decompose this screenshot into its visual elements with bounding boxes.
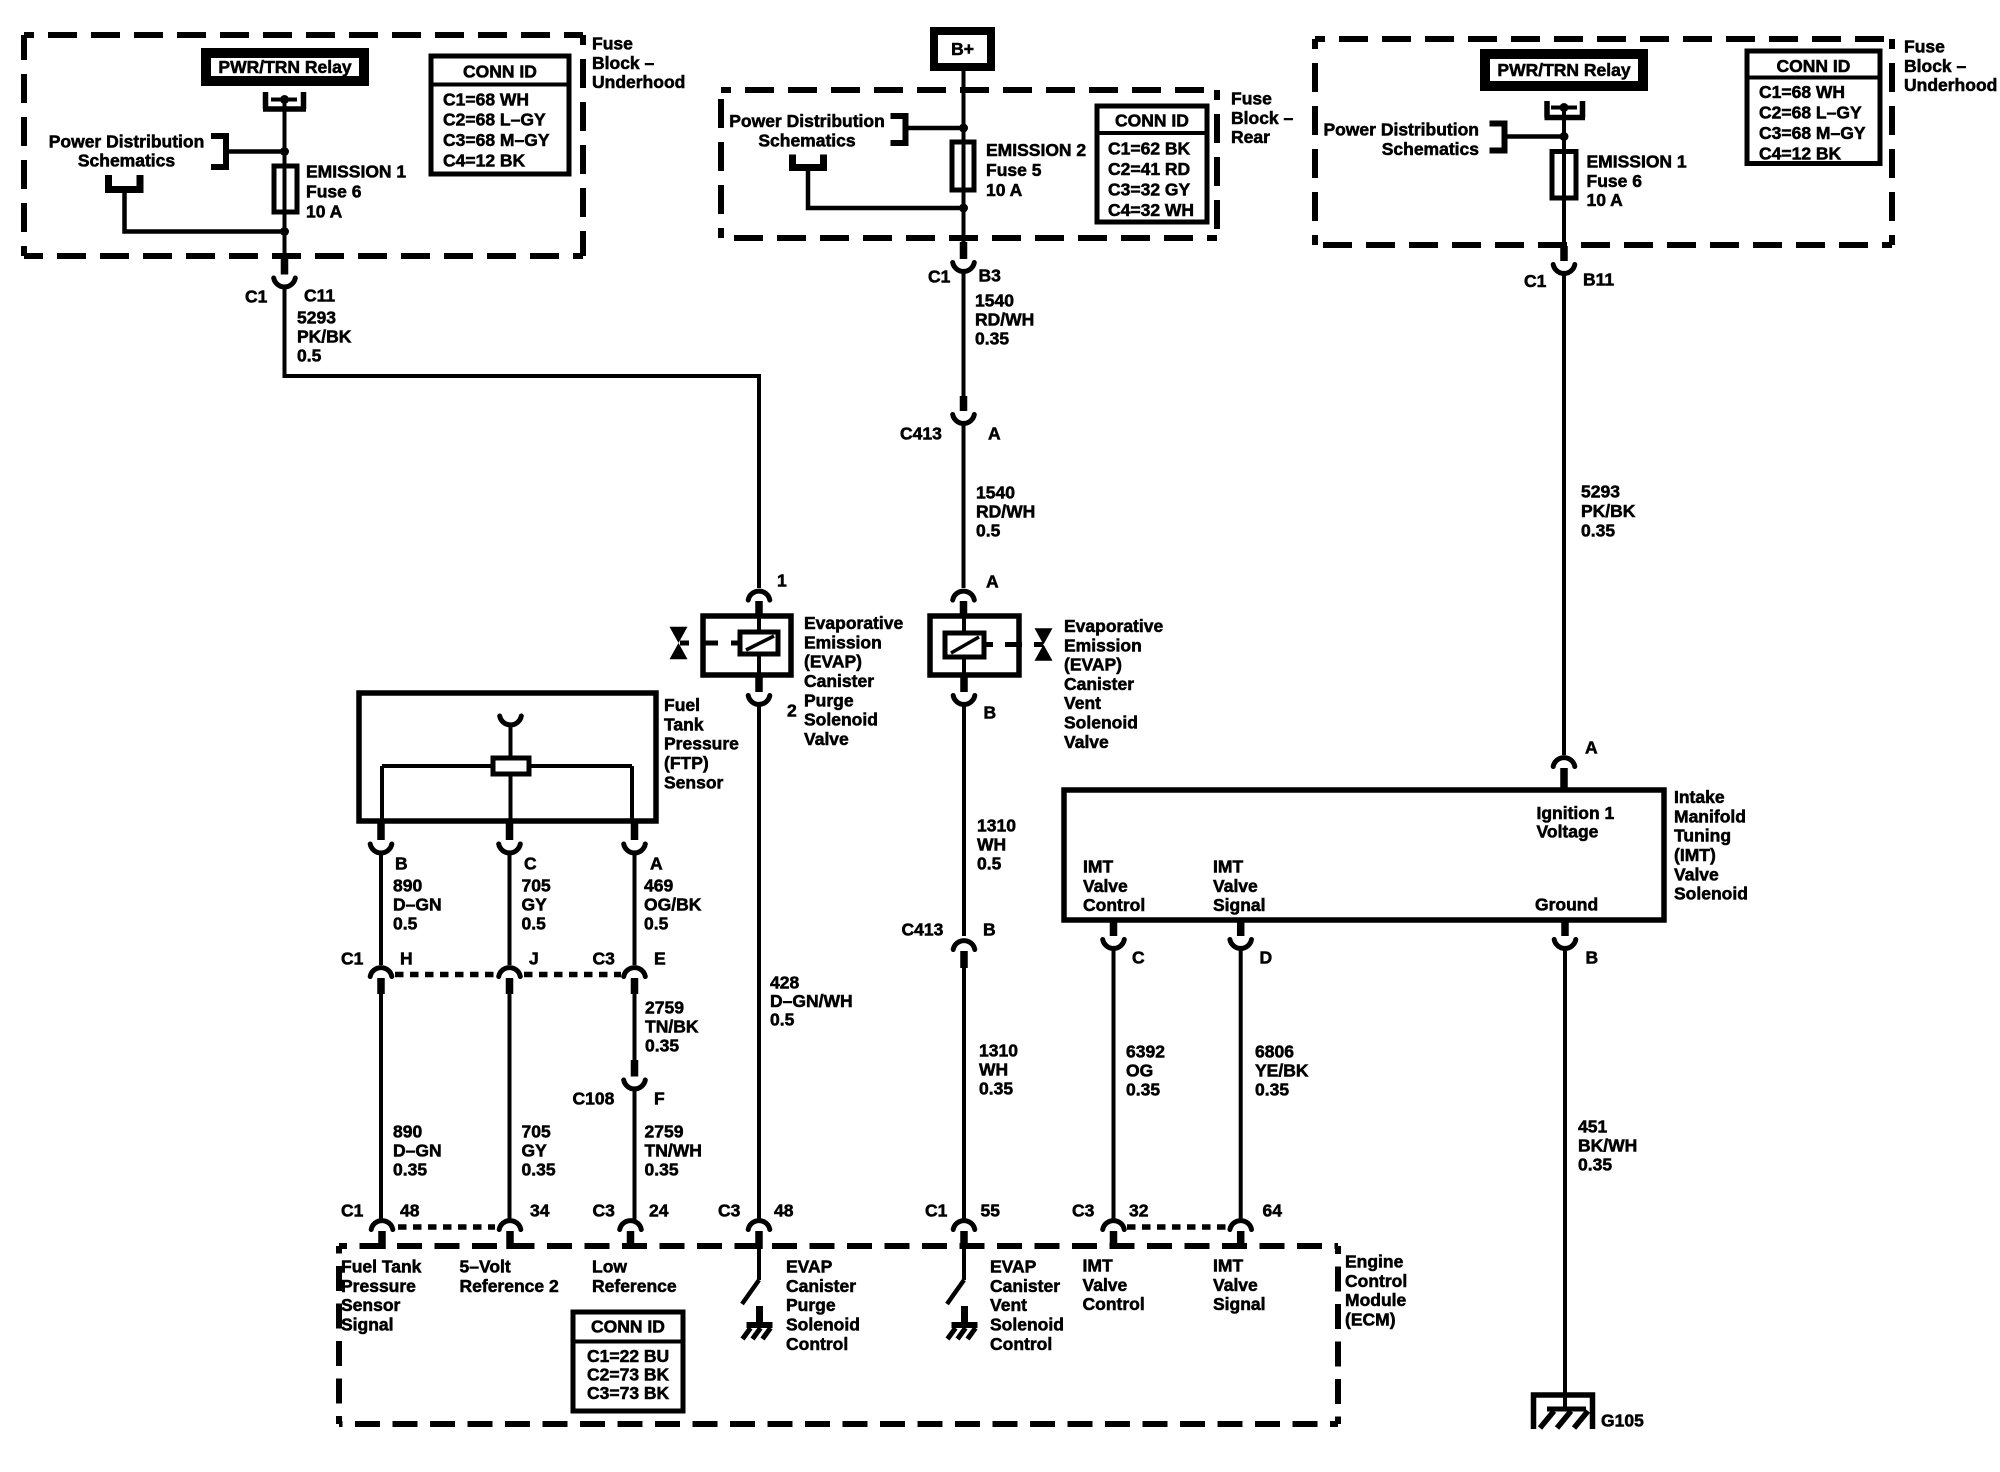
svg-text:GY: GY — [522, 1141, 548, 1161]
svg-text:Evaporative: Evaporative — [804, 613, 903, 633]
svg-text:Control: Control — [1345, 1271, 1407, 1291]
svg-text:10 A: 10 A — [1587, 190, 1624, 210]
CONN ID table (ECM) — [573, 1312, 683, 1411]
wire 1310 WH 0.35 — [962, 967, 966, 1220]
svg-text:10 A: 10 A — [986, 180, 1023, 200]
svg-text:705: 705 — [522, 1122, 551, 1142]
FTP sensor internal wiper — [500, 716, 522, 725]
svg-text:0.5: 0.5 — [522, 914, 547, 934]
svg-text:C108: C108 — [573, 1089, 615, 1109]
svg-text:Evaporative: Evaporative — [1064, 616, 1163, 636]
svg-text:Schematics: Schematics — [1382, 139, 1480, 159]
svg-text:Control: Control — [1083, 895, 1145, 915]
svg-text:428: 428 — [770, 973, 799, 993]
svg-text:Pressure: Pressure — [664, 734, 739, 754]
valve symbol bowtie (purge) — [670, 627, 688, 659]
relay PWR/TRN (left) — [201, 48, 369, 86]
wire 705 GY 0.5 — [508, 854, 512, 965]
svg-text:Module: Module — [1345, 1290, 1407, 1310]
svg-text:Fuse: Fuse — [1904, 37, 1945, 57]
wire 6392 OG 0.35 — [1112, 950, 1116, 1221]
svg-text:C3=73 BK: C3=73 BK — [587, 1383, 670, 1403]
wire 5293 PK/BK 0.5 — [285, 288, 760, 588]
svg-text:CONN ID: CONN ID — [591, 1317, 665, 1337]
relay coil pin symbol (right) — [1545, 101, 1586, 118]
wire 890 D-GN 0.5 — [379, 854, 383, 965]
svg-text:Schematics: Schematics — [78, 151, 176, 171]
svg-text:Canister: Canister — [990, 1276, 1060, 1296]
svg-text:Emission: Emission — [1064, 635, 1142, 655]
wire - left fuse block vertical feed — [283, 100, 287, 258]
intake manifold tuning IMT valve solenoid box — [1064, 790, 1664, 920]
FTP sensor internal network — [382, 764, 632, 768]
svg-text:Valve: Valve — [804, 729, 849, 749]
svg-text:C413: C413 — [902, 920, 944, 940]
wire 1540 RD/WH 0.5 — [962, 425, 966, 589]
dashed connector grouping H-J-E — [395, 972, 496, 978]
svg-text:Manifold: Manifold — [1674, 806, 1746, 826]
svg-text:Solenoid: Solenoid — [1674, 884, 1748, 904]
svg-text:RD/WH: RD/WH — [976, 502, 1035, 522]
FTP pin A — [631, 824, 639, 841]
svg-text:Tuning: Tuning — [1674, 826, 1731, 846]
svg-text:Ignition 1: Ignition 1 — [1537, 803, 1615, 823]
svg-text:Power Distribution: Power Distribution — [49, 132, 205, 152]
svg-text:A: A — [986, 572, 999, 592]
svg-text:E: E — [654, 949, 666, 969]
svg-text:Sensor: Sensor — [341, 1295, 401, 1315]
svg-text:Fuse 6: Fuse 6 — [1587, 171, 1643, 191]
svg-text:EMISSION 2: EMISSION 2 — [986, 140, 1086, 160]
svg-text:Underhood: Underhood — [592, 72, 685, 92]
svg-text:Block –: Block – — [1904, 56, 1967, 76]
svg-text:IMT: IMT — [1213, 1256, 1243, 1276]
wire - right fuse block vertical feed — [1562, 108, 1566, 248]
svg-text:B: B — [984, 703, 997, 723]
svg-text:C1: C1 — [1524, 271, 1547, 291]
wire bracket to junction (middle) — [906, 126, 964, 131]
svg-text:10 A: 10 A — [306, 202, 343, 222]
fuse EMISSION 1 Fuse 6 10A (left) — [274, 166, 297, 212]
connector C1 B11 — [1560, 246, 1568, 261]
svg-text:6806: 6806 — [1255, 1042, 1294, 1062]
svg-text:A: A — [1585, 738, 1598, 758]
svg-text:Solenoid: Solenoid — [786, 1315, 860, 1335]
ECM vent driver switch and ground — [962, 1249, 966, 1280]
reference bracket U (middle) — [793, 155, 824, 168]
svg-text:0.35: 0.35 — [522, 1160, 556, 1180]
svg-text:TN/BK: TN/BK — [645, 1017, 699, 1037]
bracket to Power Distribution Schematics (left) — [211, 133, 226, 170]
fuse EMISSION 1 Fuse 6 10A (right) — [1552, 152, 1576, 199]
svg-text:0.35: 0.35 — [1581, 521, 1615, 541]
CONN ID table (right) — [1747, 51, 1880, 164]
svg-text:0.35: 0.35 — [1255, 1080, 1289, 1100]
wire 428 D-GN/WH 0.5 — [757, 705, 761, 1220]
svg-text:48: 48 — [774, 1201, 794, 1221]
svg-text:5–Volt: 5–Volt — [460, 1257, 511, 1277]
wire 1540 RD/WH 0.35 — [962, 273, 966, 399]
svg-text:B+: B+ — [951, 39, 974, 59]
svg-text:(IMT): (IMT) — [1674, 845, 1716, 865]
svg-text:Fuse 5: Fuse 5 — [986, 160, 1042, 180]
svg-text:Solenoid: Solenoid — [1064, 713, 1138, 733]
fuse block underhood (right) dashed box — [1315, 36, 1892, 42]
svg-text:C3: C3 — [1072, 1201, 1095, 1221]
svg-text:C1=62 BK: C1=62 BK — [1108, 139, 1191, 159]
wire from U bracket to junction 2 (left) — [125, 190, 286, 232]
wire 2759 TN/BK 0.35 — [633, 992, 637, 1060]
svg-text:IMT: IMT — [1213, 857, 1243, 877]
svg-text:Control: Control — [990, 1334, 1052, 1354]
svg-text:Valve: Valve — [1064, 732, 1109, 752]
svg-text:2: 2 — [787, 701, 797, 721]
svg-text:890: 890 — [393, 876, 422, 896]
svg-text:C2=73 BK: C2=73 BK — [587, 1365, 670, 1385]
svg-text:C4=12 BK: C4=12 BK — [1759, 144, 1842, 164]
svg-text:D–GN: D–GN — [393, 895, 442, 915]
svg-text:Fuel Tank: Fuel Tank — [341, 1257, 422, 1277]
svg-text:EMISSION 1: EMISSION 1 — [1587, 152, 1687, 172]
svg-text:CONN ID: CONN ID — [1115, 111, 1189, 131]
svg-text:WH: WH — [977, 835, 1006, 855]
dashed connector grouping 32-64 — [1127, 1224, 1226, 1230]
svg-text:Block –: Block – — [1231, 108, 1294, 128]
svg-text:C1: C1 — [341, 1201, 364, 1221]
svg-text:EMISSION 1: EMISSION 1 — [306, 162, 406, 182]
svg-text:0.5: 0.5 — [393, 914, 418, 934]
wire 705 GY 0.35 — [508, 992, 512, 1220]
bracket to Power Distribution Schematics (middle) — [891, 113, 906, 146]
svg-text:2759: 2759 — [645, 998, 684, 1018]
svg-text:C1: C1 — [341, 949, 364, 969]
svg-text:OG/BK: OG/BK — [644, 895, 702, 915]
node junction (right) — [1560, 132, 1569, 141]
svg-text:C4=12 BK: C4=12 BK — [443, 151, 526, 171]
svg-text:Canister: Canister — [1064, 674, 1134, 694]
svg-text:EVAP: EVAP — [786, 1257, 833, 1277]
svg-text:(EVAP): (EVAP) — [804, 652, 862, 672]
svg-text:Ground: Ground — [1535, 895, 1598, 915]
svg-text:C413: C413 — [900, 424, 942, 444]
svg-text:C1: C1 — [245, 287, 268, 307]
svg-text:Signal: Signal — [341, 1315, 394, 1335]
svg-text:PWR/TRN Relay: PWR/TRN Relay — [1497, 60, 1630, 80]
svg-text:Emission: Emission — [804, 632, 882, 652]
svg-text:Valve: Valve — [1083, 1275, 1128, 1295]
svg-text:0.5: 0.5 — [297, 346, 322, 366]
svg-text:IMT: IMT — [1083, 1256, 1113, 1276]
IMT pin C — [1110, 920, 1118, 936]
svg-text:0.5: 0.5 — [644, 914, 669, 934]
IMT pin B ground — [1561, 920, 1569, 936]
svg-text:Fuse: Fuse — [1231, 89, 1272, 109]
svg-text:Vent: Vent — [1064, 693, 1101, 713]
svg-text:C4=32 WH: C4=32 WH — [1108, 200, 1194, 220]
wire 2759 TN/WH 0.35 — [633, 1090, 637, 1220]
svg-text:PK/BK: PK/BK — [297, 327, 352, 347]
svg-text:GY: GY — [522, 895, 548, 915]
svg-text:705: 705 — [522, 876, 551, 896]
svg-text:D–GN/WH: D–GN/WH — [770, 991, 853, 1011]
svg-text:CONN ID: CONN ID — [463, 62, 537, 82]
svg-text:Tank: Tank — [664, 714, 704, 734]
svg-text:C1=22 BU: C1=22 BU — [587, 1346, 669, 1366]
node junction 1 (middle) — [959, 124, 968, 133]
connector C1 C11 — [281, 255, 289, 275]
svg-text:34: 34 — [530, 1201, 550, 1221]
svg-text:Valve: Valve — [1213, 1275, 1258, 1295]
wire B+ to fuse block rear — [962, 71, 966, 243]
svg-text:Reference 2: Reference 2 — [460, 1276, 559, 1296]
svg-text:Power Distribution: Power Distribution — [1323, 120, 1479, 140]
svg-text:Control: Control — [1083, 1294, 1145, 1314]
fuse block rear dashed box — [721, 87, 1217, 93]
svg-text:Block –: Block – — [592, 53, 655, 73]
relay coil pin symbol (left) — [263, 92, 306, 109]
FTP pin B — [377, 824, 385, 841]
wire bracket to junction (right) — [1505, 134, 1565, 139]
svg-text:B: B — [395, 854, 408, 874]
svg-text:Schematics: Schematics — [758, 130, 856, 150]
svg-text:IMT: IMT — [1083, 857, 1113, 877]
connector C1 B3 — [960, 242, 968, 259]
svg-text:C2=68 L–GY: C2=68 L–GY — [1759, 103, 1862, 123]
svg-text:B11: B11 — [1583, 270, 1614, 290]
svg-text:PWR/TRN Relay: PWR/TRN Relay — [218, 57, 351, 77]
svg-text:PK/BK: PK/BK — [1581, 501, 1636, 521]
svg-text:469: 469 — [644, 876, 673, 896]
svg-text:D–GN: D–GN — [393, 1141, 442, 1161]
svg-text:0.35: 0.35 — [979, 1079, 1013, 1099]
svg-text:RD/WH: RD/WH — [975, 310, 1034, 330]
relay PWR/TRN (right) — [1480, 49, 1648, 91]
wire 451 BK/WH 0.35 — [1563, 950, 1567, 1411]
svg-text:Signal: Signal — [1213, 1294, 1266, 1314]
svg-text:890: 890 — [393, 1122, 422, 1142]
engine control module ECM dashed box — [339, 1243, 1338, 1249]
svg-text:Purge: Purge — [804, 690, 854, 710]
svg-text:B: B — [1586, 948, 1599, 968]
svg-text:Fuel: Fuel — [664, 695, 700, 715]
wire from U bracket to junction 2 (middle) — [808, 168, 964, 209]
svg-text:F: F — [654, 1089, 665, 1109]
svg-text:G105: G105 — [1601, 1411, 1644, 1431]
svg-text:32: 32 — [1129, 1201, 1149, 1221]
svg-text:TN/WH: TN/WH — [645, 1141, 702, 1161]
wire 1310 WH 0.5 — [962, 705, 966, 936]
fuel tank pressure sensor box B58 — [359, 693, 656, 821]
svg-text:451: 451 — [1578, 1117, 1607, 1137]
connector C108 pin F — [631, 1060, 639, 1077]
EVAP canister vent solenoid valve — [930, 616, 1019, 675]
svg-text:1540: 1540 — [976, 483, 1015, 503]
FTP sensor internal resistor — [493, 758, 529, 774]
svg-text:Purge: Purge — [786, 1295, 836, 1315]
svg-text:64: 64 — [1263, 1201, 1283, 1221]
valve symbol bowtie (vent) — [1035, 628, 1053, 660]
svg-text:C3=68 M–GY: C3=68 M–GY — [1759, 123, 1866, 143]
pin 2 of EVAP purge solenoid — [755, 675, 763, 692]
svg-text:Canister: Canister — [804, 671, 874, 691]
svg-text:C3=68 M–GY: C3=68 M–GY — [443, 130, 550, 150]
svg-text:C: C — [1132, 948, 1145, 968]
svg-text:Valve: Valve — [1213, 876, 1258, 896]
svg-text:Reference: Reference — [592, 1276, 677, 1296]
svg-text:(ECM): (ECM) — [1345, 1310, 1396, 1330]
svg-text:Solenoid: Solenoid — [990, 1315, 1064, 1335]
node junction 2 (middle) — [959, 204, 968, 213]
FTP pin C — [506, 824, 514, 841]
svg-text:C2=68 L–GY: C2=68 L–GY — [443, 110, 546, 130]
power feed B+ — [930, 27, 995, 71]
svg-text:1310: 1310 — [979, 1041, 1018, 1061]
svg-text:Voltage: Voltage — [1537, 822, 1599, 842]
bracket to Power Distribution Schematics (right) — [1490, 121, 1505, 154]
svg-text:5293: 5293 — [1581, 482, 1620, 502]
svg-text:Valve: Valve — [1674, 864, 1719, 884]
svg-text:Sensor: Sensor — [664, 772, 724, 792]
svg-text:A: A — [650, 854, 663, 874]
svg-text:OG: OG — [1126, 1061, 1153, 1081]
CONN ID table (middle) — [1097, 106, 1207, 222]
svg-text:C2=41 RD: C2=41 RD — [1108, 159, 1190, 179]
svg-text:0.35: 0.35 — [1578, 1155, 1612, 1175]
svg-text:Control: Control — [786, 1334, 848, 1354]
svg-text:5293: 5293 — [297, 308, 336, 328]
ground G105 — [1534, 1395, 1593, 1429]
svg-text:Valve: Valve — [1083, 876, 1128, 896]
svg-text:1310: 1310 — [977, 816, 1016, 836]
svg-text:C1=68 WH: C1=68 WH — [1759, 82, 1845, 102]
wire 890 D-GN 0.35 — [379, 992, 383, 1220]
svg-text:C3=32 GY: C3=32 GY — [1108, 180, 1191, 200]
ECM purge driver switch and ground — [757, 1249, 761, 1280]
svg-text:Signal: Signal — [1213, 895, 1266, 915]
wire 5293 PK/BK 0.35 — [1562, 275, 1566, 756]
reference bracket U (left) — [109, 175, 141, 190]
svg-text:CONN ID: CONN ID — [1777, 56, 1851, 76]
svg-text:(EVAP): (EVAP) — [1064, 655, 1122, 675]
svg-text:WH: WH — [979, 1060, 1008, 1080]
node junction 2 (left) — [280, 227, 289, 236]
svg-text:H: H — [400, 949, 413, 969]
node junction 1 (left) — [280, 147, 289, 156]
svg-text:55: 55 — [981, 1201, 1001, 1221]
svg-text:C: C — [524, 854, 537, 874]
IMT pin D — [1237, 920, 1245, 936]
svg-text:A: A — [988, 424, 1001, 444]
valve linkage dashes (purge) — [680, 641, 689, 646]
svg-text:Engine: Engine — [1345, 1252, 1404, 1272]
svg-text:0.5: 0.5 — [976, 521, 1001, 541]
svg-text:C1: C1 — [928, 267, 951, 287]
svg-text:C1: C1 — [925, 1201, 948, 1221]
svg-text:0.35: 0.35 — [645, 1160, 679, 1180]
valve linkage dashes (vent) — [984, 642, 993, 647]
svg-text:Fuse 6: Fuse 6 — [306, 182, 362, 202]
svg-text:1540: 1540 — [975, 291, 1014, 311]
svg-text:Power Distribution: Power Distribution — [729, 111, 885, 131]
svg-text:Solenoid: Solenoid — [804, 710, 878, 730]
svg-text:D: D — [1260, 948, 1273, 968]
dashed connector grouping 48-34 — [398, 1224, 495, 1230]
svg-text:0.35: 0.35 — [645, 1036, 679, 1056]
svg-text:1: 1 — [777, 571, 787, 591]
svg-text:B: B — [983, 920, 996, 940]
svg-text:24: 24 — [649, 1201, 669, 1221]
svg-text:C3: C3 — [593, 949, 616, 969]
svg-text:Pressure: Pressure — [341, 1276, 416, 1296]
svg-text:48: 48 — [400, 1201, 420, 1221]
svg-text:2759: 2759 — [645, 1122, 684, 1142]
svg-text:0.5: 0.5 — [770, 1010, 795, 1030]
wire 469 OG/BK 0.5 — [633, 854, 637, 965]
svg-text:Intake: Intake — [1674, 787, 1725, 807]
wire bracket to junction (left) — [226, 149, 285, 154]
svg-text:Canister: Canister — [786, 1276, 856, 1296]
fuse EMISSION 2 Fuse 5 10A — [952, 142, 974, 190]
svg-text:Underhood: Underhood — [1904, 75, 1997, 95]
connector C413 pin A — [960, 396, 968, 411]
svg-text:BK/WH: BK/WH — [1578, 1136, 1637, 1156]
svg-text:J: J — [529, 949, 539, 969]
fuse block underhood (left) dashed box — [24, 32, 583, 38]
svg-text:Vent: Vent — [990, 1295, 1027, 1315]
svg-text:0.35: 0.35 — [975, 329, 1009, 349]
svg-text:YE/BK: YE/BK — [1255, 1061, 1309, 1081]
svg-text:C1=68 WH: C1=68 WH — [443, 90, 529, 110]
svg-text:6392: 6392 — [1126, 1042, 1165, 1062]
svg-text:(FTP): (FTP) — [664, 753, 709, 773]
pin B of EVAP vent solenoid — [960, 675, 968, 692]
svg-text:C3: C3 — [593, 1201, 616, 1221]
svg-text:EVAP: EVAP — [990, 1257, 1037, 1277]
svg-text:C3: C3 — [718, 1201, 741, 1221]
svg-text:Fuse: Fuse — [592, 34, 633, 54]
svg-text:0.5: 0.5 — [977, 854, 1002, 874]
svg-text:B3: B3 — [979, 266, 1002, 286]
svg-text:Low: Low — [592, 1257, 627, 1277]
wire 6806 YE/BK 0.35 — [1239, 950, 1243, 1221]
CONN ID table (left) — [431, 56, 569, 174]
svg-text:Rear: Rear — [1231, 127, 1270, 147]
svg-text:0.35: 0.35 — [393, 1160, 427, 1180]
EVAP canister purge solenoid valve U102 — [703, 616, 791, 675]
svg-text:C11: C11 — [304, 286, 335, 306]
svg-text:0.35: 0.35 — [1126, 1080, 1160, 1100]
